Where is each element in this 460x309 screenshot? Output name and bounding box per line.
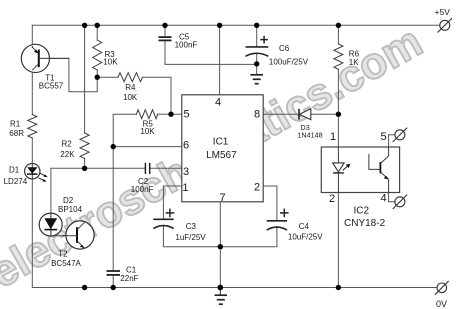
pin number 4 IC2	[380, 193, 386, 205]
svg-text:100uF/25V: 100uF/25V	[269, 58, 309, 67]
wire C1 bottom to rail	[112, 275, 114, 288]
wire node pin3 horizontal	[51, 167, 145, 169]
resistor R5	[136, 110, 158, 119]
label IC2 CNY18-2	[344, 205, 386, 229]
svg-text:1: 1	[330, 131, 336, 143]
terminal IC2 pin4	[393, 195, 407, 209]
pin number 7 IC1	[219, 192, 225, 204]
wire pin6 node to IC1 pin 6	[113, 146, 182, 148]
svg-text:BC557: BC557	[39, 82, 64, 91]
label C1	[120, 265, 138, 283]
wire C1 branch vertical	[112, 147, 114, 271]
svg-text:10uF/25V: 10uF/25V	[288, 233, 323, 242]
IC2 box CNY18-2	[321, 147, 399, 193]
label C6	[269, 44, 309, 66]
plus sign C4	[280, 209, 289, 218]
LED D1 LD274	[25, 164, 48, 182]
svg-text:22K: 22K	[60, 150, 75, 159]
capacitor C3 polarized	[153, 219, 173, 228]
wire bottom 0V rail	[32, 287, 437, 289]
wire R5 left down to pin6 node	[113, 114, 136, 146]
svg-text:22nF: 22nF	[120, 274, 138, 283]
svg-text:2: 2	[254, 182, 260, 194]
wire R2 branch from rail	[84, 25, 86, 133]
wire R6 branch from rail	[337, 25, 339, 44]
transistor T2 BC547A	[62, 221, 94, 249]
label R3	[103, 50, 118, 66]
diode D3 1N4148	[299, 109, 311, 120]
label D3	[297, 123, 322, 139]
wire C4 bottom to pin7 node	[220, 227, 277, 247]
pin number 4 IC1	[215, 96, 221, 108]
resistor R1	[28, 115, 37, 139]
svg-text:1N4148: 1N4148	[297, 131, 322, 140]
svg-text:3: 3	[183, 166, 189, 178]
svg-text:8: 8	[254, 109, 260, 121]
svg-text:R1: R1	[10, 119, 21, 128]
label R6	[349, 49, 360, 67]
wire D3 node to IC2 pin 1	[337, 114, 339, 147]
wire IC1 pin 2 to C4	[263, 186, 277, 221]
wire C3 bottom to pin7 node	[163, 227, 220, 247]
label T1	[39, 74, 64, 91]
wire IC1 pin 1 to C3	[163, 186, 181, 219]
svg-text:1uF/25V: 1uF/25V	[175, 233, 206, 242]
wire C5 branch from rail	[164, 25, 166, 37]
plus sign C6	[260, 36, 268, 44]
plus sign C3	[166, 209, 175, 218]
wire left vertical from rail to T1 emitter	[31, 25, 33, 47]
wire IC1 pin 4 from rail	[219, 25, 221, 95]
svg-text:R2: R2	[62, 139, 73, 148]
photodiode D2 BP104	[39, 213, 62, 236]
capacitor C1	[107, 271, 121, 275]
capacitor C6 polarized	[246, 47, 269, 56]
wire IC1 pin 8 to D3	[263, 113, 299, 115]
svg-text:100nF: 100nF	[131, 185, 154, 194]
wire D2 anode vertical	[50, 168, 52, 213]
wire R2 bottom to junction	[84, 159, 86, 169]
ground symbol C6	[250, 75, 263, 84]
wire D1 to bottom rail	[31, 179, 33, 288]
pin number 3 IC1	[183, 166, 189, 178]
terminal IC2 pin5	[393, 128, 407, 142]
svg-text:6: 6	[183, 140, 189, 152]
svg-text:5: 5	[380, 131, 386, 143]
svg-text:IC2: IC2	[354, 205, 370, 216]
label D2	[58, 196, 83, 214]
wire R3 branch from rail	[96, 25, 98, 40]
label R4	[123, 83, 138, 102]
svg-text:0V: 0V	[436, 299, 447, 309]
svg-text:10K: 10K	[140, 127, 155, 136]
IC1 box LM567	[182, 95, 263, 202]
pin number 1 IC2	[330, 131, 336, 143]
transistor T1 BC557	[21, 44, 69, 72]
wire C5 bottom to C6 ground node	[165, 40, 257, 64]
label C5	[175, 32, 198, 49]
label C4	[288, 222, 323, 242]
svg-text:100nF: 100nF	[175, 41, 198, 50]
resistor R4	[118, 73, 143, 82]
resistor R6	[334, 44, 343, 69]
svg-text:D2: D2	[63, 196, 74, 205]
svg-text:LM567: LM567	[206, 150, 237, 161]
wire R5 right to pin5 node	[158, 113, 171, 115]
svg-text:68R: 68R	[9, 129, 24, 138]
pin number 5 IC2	[380, 131, 386, 143]
wire D3 to R6 node	[311, 113, 339, 115]
svg-text:C4: C4	[299, 222, 310, 231]
svg-text:4: 4	[380, 193, 386, 205]
wire IC1 pin 7 to bottom rail	[219, 202, 221, 288]
wire C6 bottom to ground node	[256, 54, 258, 75]
svg-text:T2: T2	[58, 250, 68, 259]
wire T1 base to node	[41, 58, 98, 91]
label C3	[175, 222, 206, 242]
resistor R3	[93, 40, 102, 70]
wire T1 collector down to R1	[31, 70, 33, 114]
svg-text:LD274: LD274	[4, 177, 28, 186]
wire IC2 pin 2 to bottom rail	[337, 193, 339, 288]
wire R3 bottom to node	[96, 70, 98, 77]
svg-text:10K: 10K	[103, 58, 118, 67]
wire IC2 pin 4 to terminal	[389, 193, 395, 202]
IC2 internal phototransistor	[369, 147, 389, 193]
svg-text:+5V: +5V	[435, 7, 451, 17]
svg-text:CNY18-2: CNY18-2	[344, 218, 386, 229]
wire IC2 pin 5 to terminal	[389, 135, 395, 147]
ground symbol 0V rail	[215, 288, 227, 305]
svg-text:7: 7	[219, 192, 225, 204]
wire top +5V rail	[32, 24, 440, 26]
capacitor C5	[159, 37, 172, 40]
label R1	[9, 119, 24, 138]
svg-text:C1: C1	[126, 265, 137, 274]
svg-text:BC547A: BC547A	[51, 259, 81, 268]
svg-text:BP104: BP104	[58, 205, 83, 214]
label R2	[60, 139, 75, 159]
svg-text:4: 4	[215, 96, 221, 108]
svg-text:IC1: IC1	[213, 137, 229, 148]
node 0V label	[436, 299, 447, 309]
wire R6 bottom to D3 node	[337, 69, 339, 114]
terminal 0V	[435, 281, 449, 295]
capacitor C2	[145, 163, 149, 174]
svg-text:5: 5	[184, 109, 190, 121]
resistor R2	[80, 133, 89, 159]
wire C2 to IC1 pin 3	[150, 167, 182, 169]
svg-text:1: 1	[182, 182, 188, 194]
wire R1 bottom to D1	[31, 138, 33, 164]
svg-text:D1: D1	[9, 166, 20, 175]
label C2	[131, 177, 154, 194]
pin number 6 IC1	[183, 140, 189, 152]
wire C6 branch from rail	[256, 25, 258, 47]
label D1	[4, 166, 28, 186]
pin number 1 IC1	[182, 182, 188, 194]
capacitor C4 polarized	[267, 221, 287, 230]
svg-text:R4: R4	[125, 83, 136, 92]
node +5V label	[435, 7, 451, 17]
terminal +5V	[438, 18, 452, 32]
svg-text:C3: C3	[186, 222, 197, 231]
pin number 5 IC1	[184, 109, 190, 121]
pin number 2 IC2	[329, 193, 335, 205]
svg-text:R6: R6	[349, 49, 360, 58]
IC2 internal LED	[333, 147, 351, 193]
pin number 2 IC1	[254, 182, 260, 194]
svg-text:1K: 1K	[349, 58, 359, 67]
wire R4 to IC1 pin 5	[143, 77, 182, 114]
svg-text:C6: C6	[279, 44, 290, 53]
wire D2 cathode to T2 base	[51, 235, 77, 237]
label T2	[51, 250, 81, 269]
svg-text:10K: 10K	[123, 93, 138, 102]
svg-text:2: 2	[329, 193, 335, 205]
label IC1 LM567	[206, 137, 237, 162]
label R5	[140, 120, 155, 136]
wire node to R4	[97, 76, 118, 78]
pin number 8 IC1	[254, 109, 260, 121]
